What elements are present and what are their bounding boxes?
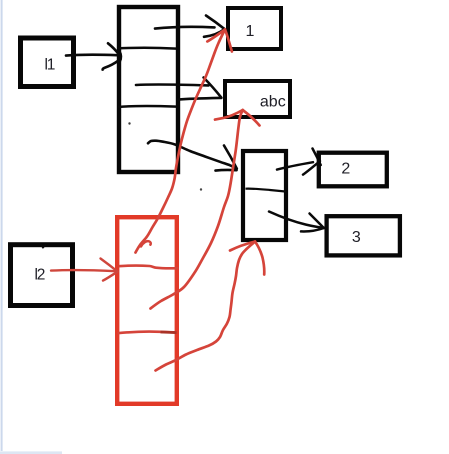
arrow cell1 to box 1 shaft xyxy=(155,27,215,29)
box l2 xyxy=(11,245,73,306)
red curve A head barbs xyxy=(225,30,232,52)
window edge bottom-left strip xyxy=(0,451,62,454)
arrow cell2 to abc lower line xyxy=(178,98,221,100)
box abc xyxy=(225,81,290,117)
dot between node and red list xyxy=(200,188,202,190)
red arrow l2 to red list shaft xyxy=(51,270,116,271)
arrow node to box 3 head xyxy=(310,214,324,229)
red curve A start squiggle xyxy=(141,241,151,246)
svg-text:abc: abc xyxy=(260,94,286,111)
dot inside list1 xyxy=(128,122,130,124)
arrow cell3 to node shaft xyxy=(148,141,236,169)
list1 divider 1 xyxy=(118,47,177,50)
red list divider 1 xyxy=(119,266,179,269)
svg-text:2: 2 xyxy=(341,161,350,178)
box 1 xyxy=(228,8,281,49)
list1 divider 2 xyxy=(118,106,177,107)
tick on l2 top border xyxy=(41,244,46,247)
arrow node to box 3 shaft xyxy=(269,212,324,228)
red list divider 2 xyxy=(118,332,177,334)
red curve E head barbs xyxy=(230,242,255,251)
red arrow l2 to red list head xyxy=(101,259,118,272)
middle node rect xyxy=(243,151,286,240)
arrow node to box 2 shaft xyxy=(277,162,313,169)
svg-text:3: 3 xyxy=(352,229,361,246)
box 2 xyxy=(319,153,387,187)
red curve B to abc xyxy=(151,110,243,309)
middle node divider xyxy=(246,189,287,192)
red curve A to box 1 xyxy=(136,30,226,253)
arrow node to box 2 head xyxy=(313,149,321,166)
arrow l1 to list1 shaft xyxy=(66,53,117,56)
box 3 xyxy=(327,216,400,255)
arrow l1 to list1 head xyxy=(108,43,119,54)
box l1 xyxy=(21,38,74,87)
arrow cell1 to box 1 head xyxy=(206,16,225,30)
red curve E to middle node xyxy=(156,242,256,371)
svg-text:l2: l2 xyxy=(34,267,44,284)
window edge left strip xyxy=(1,0,3,451)
list1 node rect xyxy=(119,7,178,172)
red list node rect xyxy=(117,217,177,404)
arrow cell2 to abc upper line xyxy=(136,83,209,87)
arrow cell2 to abc head barb xyxy=(204,78,222,98)
svg-text:l1: l1 xyxy=(44,56,54,73)
arrow cell3 to node head xyxy=(224,146,237,169)
red curve B head barbs xyxy=(215,110,243,120)
svg-text:1: 1 xyxy=(246,23,255,40)
